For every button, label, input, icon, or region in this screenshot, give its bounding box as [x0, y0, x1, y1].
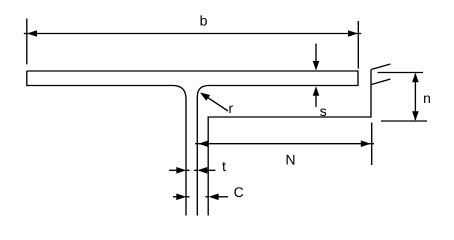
- dimension b extension line right: [357, 21, 359, 69]
- label b: [201, 15, 207, 25]
- label C: [234, 187, 243, 197]
- dimension t left tail: [169, 169, 179, 171]
- dimension b line: [27, 33, 358, 35]
- dimension n bottom extension line: [381, 120, 427, 122]
- dimension C left tail: [173, 196, 179, 198]
- dimension b stub right: [358, 33, 361, 35]
- dimension t left stub: [186, 169, 189, 171]
- dimension b extension line left: [26, 19, 28, 65]
- dimension s lower line: [315, 95, 317, 107]
- arrowhead n up: [412, 73, 419, 83]
- break mark upper slant: [371, 64, 391, 70]
- dimension N line: [198, 143, 370, 145]
- dimension N extension line right: [371, 123, 373, 166]
- arrowhead C left: [176, 194, 186, 201]
- arrowhead b left: [27, 30, 37, 37]
- shelf line and vertical C line: [208, 70, 371, 216]
- arrowhead r leader: [200, 93, 210, 101]
- dimension C right tail: [218, 196, 228, 198]
- arrowhead s up: [313, 86, 320, 96]
- arrowhead t right: [197, 167, 207, 174]
- dimension n top extension line: [378, 72, 424, 74]
- break mark lower slant: [372, 79, 391, 85]
- dimension s upper line: [315, 44, 317, 62]
- arrowhead t left: [176, 167, 186, 174]
- arrowhead b right: [348, 30, 358, 37]
- dimension C left stub: [186, 196, 189, 198]
- arrowhead n down: [412, 111, 419, 121]
- arrowhead N right: [361, 140, 371, 147]
- dimension C right stub: [205, 196, 208, 198]
- fillet r leader line: [206, 96, 229, 111]
- arrowhead s down: [313, 61, 320, 71]
- arrowhead C right: [209, 194, 219, 201]
- label n: [424, 95, 430, 103]
- dimension n line: [414, 74, 416, 120]
- label N: [287, 155, 295, 165]
- label s: [320, 108, 326, 116]
- dimension t right tail: [206, 169, 215, 171]
- dimension t right stub: [194, 169, 197, 171]
- dimension N stub right: [371, 143, 374, 145]
- arrowhead N left: [198, 140, 208, 147]
- dimension N stub left: [195, 143, 198, 145]
- label r: [229, 105, 233, 113]
- tee outline (flange + web with fillets): [27, 71, 358, 216]
- dimension b stub left: [24, 33, 27, 35]
- label t: [222, 162, 226, 171]
